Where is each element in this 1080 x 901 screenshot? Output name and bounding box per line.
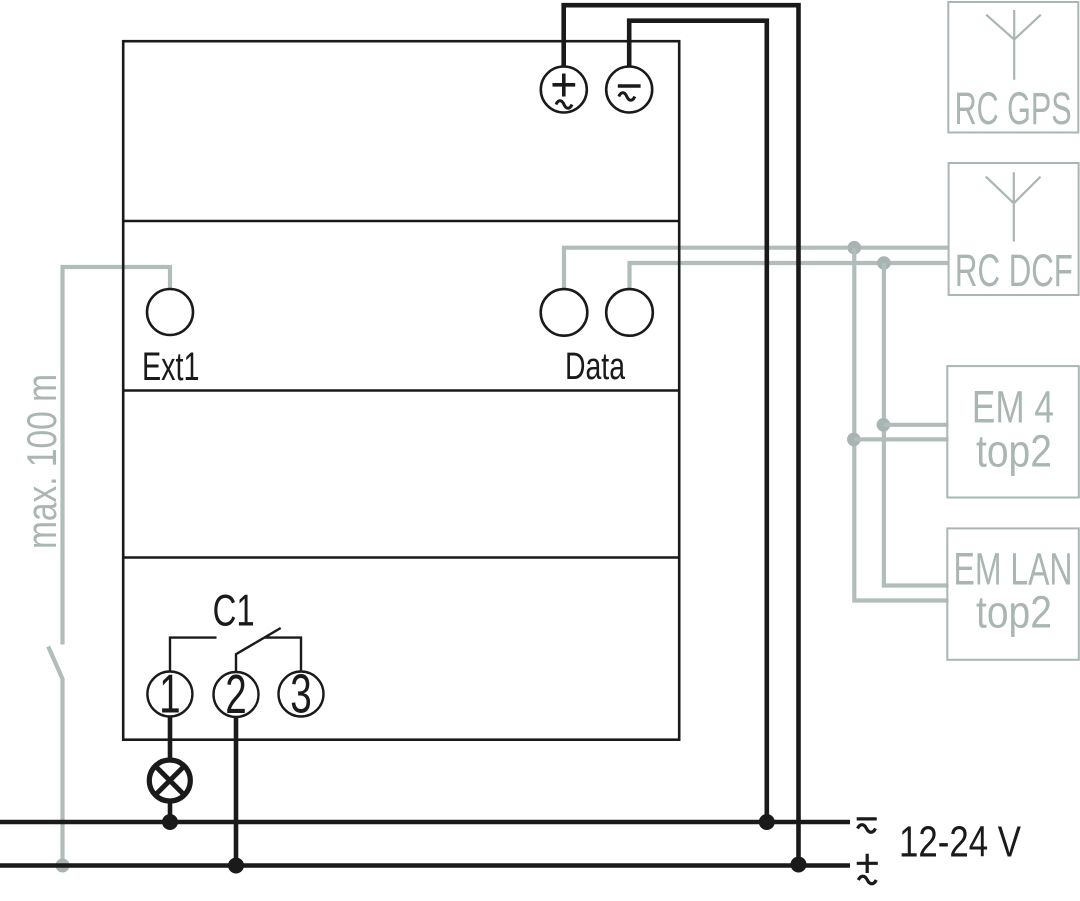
terminal Ext1 xyxy=(147,289,193,335)
junction Data-b bus xyxy=(877,256,891,270)
svg-text:3: 3 xyxy=(290,663,312,725)
label Ext1 xyxy=(142,345,200,389)
junction +~ wire on line 2 xyxy=(791,857,807,873)
terminal Data-b xyxy=(606,289,653,336)
junction pin2 circuit on line 2 xyxy=(228,858,244,874)
wire pin1 to lamp xyxy=(168,717,173,759)
power line 1 (net L-) xyxy=(0,820,850,824)
module RC GPS box xyxy=(948,2,1078,133)
svg-text:1: 1 xyxy=(159,663,181,725)
label max. 100 m xyxy=(18,374,65,549)
junction pin1 circuit on line 1 xyxy=(162,814,178,830)
relay contact C1 arm (changeover) xyxy=(170,628,301,672)
terminal Data-a xyxy=(541,289,588,336)
svg-text:12-24 V: 12-24 V xyxy=(899,819,1021,867)
label C1 xyxy=(213,587,255,636)
device box xyxy=(123,41,679,740)
label Data xyxy=(565,346,626,388)
power line 2 (net L+) xyxy=(0,863,850,867)
junction Data-a bus xyxy=(848,241,862,255)
wire terminal +~ to power line 2 xyxy=(564,5,799,864)
label top2 (EM LAN) xyxy=(976,587,1052,638)
svg-text:Data: Data xyxy=(565,346,626,388)
svg-text:2: 2 xyxy=(225,663,247,725)
wire Ext1 to external switch (gray) xyxy=(63,267,171,645)
symbol ac/dc on line 1 xyxy=(857,819,877,832)
junction gray on power line 2 xyxy=(56,859,70,873)
lamp E1 (circle with X) xyxy=(149,760,190,801)
wire Data-a to RC DCF (gray) xyxy=(564,248,949,291)
svg-text:C1: C1 xyxy=(213,587,255,636)
svg-text:max. 100 m: max. 100 m xyxy=(18,374,65,549)
wire lamp to power line 1 xyxy=(168,801,173,822)
svg-text:RC DCF: RC DCF xyxy=(955,245,1073,296)
module EM 4 top2 box xyxy=(947,366,1079,497)
label EM 4 xyxy=(972,381,1054,432)
label 12-24 V xyxy=(899,819,1021,867)
terminal +~ (supply) xyxy=(541,67,587,113)
svg-text:RC GPS: RC GPS xyxy=(955,83,1072,134)
symbol +/ac on line 2 xyxy=(857,854,878,884)
antenna symbol RC DCF xyxy=(986,172,1041,241)
antenna symbol RC GPS xyxy=(986,10,1041,80)
label RC GPS xyxy=(955,83,1072,134)
wire terminal -~ to power line 1 xyxy=(629,21,767,822)
junction Data-b to EM 4 xyxy=(877,418,891,432)
junction Data-a to EM 4 xyxy=(847,433,861,447)
switch S (external contact in Ext1 line) xyxy=(48,647,63,681)
terminal 3 (pin 3) xyxy=(279,663,324,725)
junction -~ wire on line 1 xyxy=(759,814,775,830)
terminal 1 (pin 1) xyxy=(147,663,192,725)
divider 1 xyxy=(123,220,679,222)
divider 3 xyxy=(123,556,679,558)
wire Data-a branch to EM 4 (gray) xyxy=(854,437,948,441)
svg-text:Ext1: Ext1 xyxy=(142,345,200,389)
terminal -~ (supply) xyxy=(606,67,652,113)
terminal 2 (pin 2) xyxy=(214,663,259,725)
wire switch to power line 2 xyxy=(60,679,64,866)
label RC DCF xyxy=(955,245,1073,296)
wire Data-b to RC DCF (gray) xyxy=(630,263,949,291)
label top2 (EM 4) xyxy=(976,426,1052,477)
module EM LAN top2 box xyxy=(947,528,1079,659)
svg-text:top2: top2 xyxy=(976,426,1052,477)
wire Data-b drop to EM LAN (gray) xyxy=(884,263,949,586)
wire Data-a drop to EM LAN (gray) xyxy=(854,248,948,601)
divider 2 xyxy=(123,389,679,391)
wire Data-b branch to EM 4 (gray) xyxy=(884,423,949,427)
module RC DCF box xyxy=(949,163,1079,295)
wire pin2 to power line 2 xyxy=(234,717,239,866)
label EM LAN xyxy=(954,544,1073,595)
svg-text:top2: top2 xyxy=(976,587,1052,638)
